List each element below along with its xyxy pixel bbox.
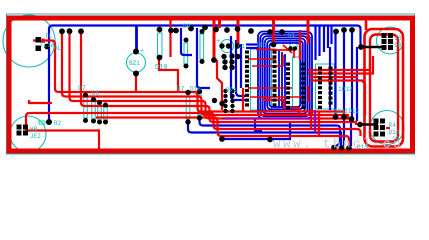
wire red horizontal y70 to right xyxy=(308,64,370,70)
svg-text:+: + xyxy=(216,38,220,46)
svg-text:14: 14 xyxy=(392,136,400,143)
IC1 left pad column xyxy=(245,51,249,107)
svg-text:B7: B7 xyxy=(177,86,185,93)
SIL pack B pads xyxy=(329,67,333,105)
resistor body B7 (lower) xyxy=(186,96,190,119)
wire red jog y97 in IC area xyxy=(250,96,303,98)
wire blue vertical x357 xyxy=(356,47,358,121)
svg-text:J8: J8 xyxy=(394,35,402,42)
keepout outline (cyan) around board xyxy=(7,14,415,154)
wire blue L near D9 x197 xyxy=(197,28,210,88)
wire blue bottom bus from D13 resistor xyxy=(200,118,341,147)
relay small red mark xyxy=(42,39,45,44)
svg-text:C1: C1 xyxy=(238,43,246,50)
red rounded rect inner (right) xyxy=(370,35,398,142)
red thick vertical x=238 xyxy=(237,17,240,45)
svg-text:1D12: 1D12 xyxy=(338,86,353,93)
wire blue vertical x285 xyxy=(284,54,286,108)
red stub in connector xyxy=(386,127,390,129)
RP1 pad columns xyxy=(223,89,227,93)
wire blue drop x331.5 xyxy=(330,26,332,44)
wire blue stub y48 xyxy=(246,47,258,49)
silk tick left of R2 pad xyxy=(39,121,45,124)
BZ1 pads xyxy=(133,49,139,55)
svg-text:RL: RL xyxy=(54,45,62,52)
relay pads xyxy=(36,37,42,43)
red zigzag left of IC1 xyxy=(217,60,222,110)
SIL resistor pack outline xyxy=(316,64,335,109)
blue line above bottom border xyxy=(222,122,290,139)
red link border to right rect xyxy=(365,20,368,30)
wire blue vertical D11 x344 lower xyxy=(343,119,345,146)
red S trace under IC1 xyxy=(262,100,299,114)
svg-text:D13: D13 xyxy=(357,144,368,151)
svg-text:www. tbncl co: www. tbncl co xyxy=(273,138,403,152)
black link line to bottom-right connector xyxy=(360,123,378,126)
wire blue vertical D12 x352 upper xyxy=(351,30,353,117)
svg-text:1D11D12: 1D11D12 xyxy=(334,108,360,115)
nested blue frames around IC1 xyxy=(258,32,312,119)
black line end pads xyxy=(358,44,364,50)
wire red to IC2 top xyxy=(272,50,294,58)
resistor body D13 (lower) xyxy=(198,95,202,115)
svg-text:D9: D9 xyxy=(183,23,191,30)
wire red up-turn x319 xyxy=(318,112,320,136)
SIL pack A pads xyxy=(318,67,322,109)
wire blue drop x328 xyxy=(327,26,329,48)
red stub from border x=219.5 xyxy=(218,17,221,28)
wire blue bottom bus from B7 resistor xyxy=(188,122,342,147)
wire blue vertical left of IC1 x241 xyxy=(240,44,242,88)
svg-text:JE2: JE2 xyxy=(30,133,41,140)
silk circle relay K1 top-left xyxy=(3,15,55,67)
resistor pads near D9 xyxy=(184,38,189,43)
bottom-right connector pads xyxy=(374,119,386,137)
IC2 body xyxy=(293,57,300,111)
pads top center-right xyxy=(248,28,254,34)
blue drop to BZ1 xyxy=(135,26,138,52)
red thick vertical x=308 xyxy=(307,17,310,44)
wire blue drop x319.5 xyxy=(318,26,320,56)
wire blue vertical x330 xyxy=(329,47,331,110)
IC2 left pad column xyxy=(286,63,290,109)
wire blue L near D9 x181 xyxy=(181,28,192,55)
diode D10 body xyxy=(158,33,163,56)
svg-text:R4: R4 xyxy=(389,122,397,129)
bottom-left connector pads xyxy=(17,125,29,136)
D7/D8 pads bottom xyxy=(83,118,88,123)
svg-text:D13: D13 xyxy=(190,86,201,93)
wire blue vertical left of IC1 x231 xyxy=(231,36,245,100)
red thick vertical x=300 xyxy=(299,30,301,60)
wire blue drop x315.5 xyxy=(314,26,316,60)
svg-text:U1: U1 xyxy=(288,32,296,39)
purple overlapped trace xyxy=(222,117,318,119)
IC2 right pad column xyxy=(302,63,306,109)
svg-text:R2: R2 xyxy=(54,120,62,127)
BZ1 bottom red xyxy=(135,73,137,92)
wire red from JP2 to border xyxy=(25,131,99,152)
black link line to JP1 xyxy=(361,46,384,49)
relay red stub xyxy=(33,41,59,93)
red thick vertical x=214 xyxy=(213,20,216,60)
wire red bus 6: y117.5 -> y136 xyxy=(96,118,349,148)
red stub right of IC2 xyxy=(307,86,309,102)
red vertical right of RP1 xyxy=(242,88,244,112)
wire red L above JP2 xyxy=(29,100,52,103)
board outline (red border) xyxy=(9,18,413,151)
IC1 right pad column xyxy=(273,51,277,107)
D10 pads xyxy=(157,27,163,33)
wire blue drop x324 xyxy=(323,26,325,52)
wire red bus 3: pad x69.5 -> y101 -> y118.5 xyxy=(70,31,353,121)
U1 staple body xyxy=(290,38,297,47)
silk circle buzzer BZ1 xyxy=(127,53,146,72)
wire red diagonal near U1 xyxy=(283,45,292,53)
silkscreen text layer (top) xyxy=(30,23,403,152)
wire purple up-turn x315 xyxy=(314,110,316,133)
wire blue vertical x282 xyxy=(281,52,283,108)
pads on top border mid xyxy=(173,28,179,34)
wire blue vertical left of IC1 x236 xyxy=(236,40,245,96)
pad on blue bottom line xyxy=(219,136,225,142)
wire red jog y59 in IC area xyxy=(248,58,276,60)
svg-text:D10: D10 xyxy=(155,64,168,72)
R2 pad xyxy=(46,119,52,125)
silk circle connector bottom-right xyxy=(370,111,404,145)
svg-text:+: + xyxy=(140,48,144,56)
pad x214 bottom xyxy=(211,57,217,63)
C1 pads row xyxy=(219,43,224,48)
U1 pads xyxy=(288,46,292,50)
wire red bus 2: pad x62 -> y96.5 -> y115 xyxy=(62,31,348,118)
top blue bus line xyxy=(49,26,361,122)
wire red y49.5 near U1 xyxy=(256,49,276,51)
wire red up-turn x311 xyxy=(310,109,312,129)
red thick vertical x=273 xyxy=(272,17,275,43)
wire red horizontal y80.5 then down xyxy=(310,81,365,116)
silk circle connector bottom-left xyxy=(10,116,46,152)
svg-text:D8: D8 xyxy=(92,90,100,97)
resistor bodies near D9/B7 xyxy=(184,43,188,64)
blue vertical from pad x336 xyxy=(334,32,336,115)
IC1 body xyxy=(251,49,272,110)
wire blue vertical D12 x352 lower xyxy=(350,121,352,146)
svg-text:TL: TL xyxy=(45,33,53,40)
blue stub below IC1 xyxy=(255,119,262,131)
svg-text:RP1: RP1 xyxy=(226,87,237,94)
wire red horizontal y73.5 to right xyxy=(308,56,373,74)
svg-text:18: 18 xyxy=(394,42,402,49)
wire red vertical from border x170.5 xyxy=(169,20,171,57)
top pads row left xyxy=(59,28,65,34)
svg-text:TL1A: TL1A xyxy=(40,42,55,49)
wire red from D10 bottom pad xyxy=(159,57,178,92)
wire blue vertical D11 x344 upper xyxy=(343,30,345,115)
svg-text:HB: HB xyxy=(30,126,38,133)
wire red bus 1: relay corner -> y92 -> y111.5 xyxy=(59,92,345,114)
JP1 connector pads (top right) xyxy=(382,33,394,50)
silk circle connector JP1 top-right xyxy=(377,27,404,54)
svg-text:IC1: IC1 xyxy=(256,42,267,49)
D7/D8 pads top xyxy=(83,93,88,98)
wire red horizontal y77 to right xyxy=(310,76,358,78)
wire red jog y66 in IC area xyxy=(252,55,283,66)
wire blue stub y44.5 xyxy=(246,43,258,45)
blue verticals top pads xyxy=(341,27,347,33)
wire red bus 5: JP2 -> y113 -> y129 xyxy=(26,113,361,136)
blue verticals bottom pads xyxy=(333,114,339,120)
wire red jog y88 in IC area xyxy=(248,87,292,89)
wire red bus 4: pad x81 -> y106 -> y122 xyxy=(81,31,356,125)
wire blue vertical x279 xyxy=(278,50,280,108)
svg-text:D7: D7 xyxy=(78,85,86,92)
svg-text:BZ1: BZ1 xyxy=(129,60,140,67)
resistor bodies D7/D8 group xyxy=(84,97,87,118)
red rounded rect outer (right) xyxy=(365,29,404,147)
capacitor C1 silk circle xyxy=(221,40,234,53)
